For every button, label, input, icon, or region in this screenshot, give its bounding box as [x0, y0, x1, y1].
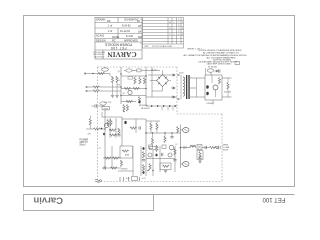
- pre-driver cluster vres b: [126, 105, 128, 112]
- oval label C3: [126, 69, 132, 72]
- bus x133: [132, 146, 134, 176]
- vres lower x150: [149, 164, 151, 171]
- regulator transistor Q10: [213, 85, 218, 90]
- ground sym G1: [111, 96, 114, 98]
- dots lower: [147, 170, 148, 171]
- svg-text:LM340T: LM340T: [207, 103, 215, 105]
- top row box c: [162, 145, 166, 148]
- bridge rectifier D1-D4 diamond: [157, 75, 169, 87]
- elect cap C7 blob: [124, 121, 126, 124]
- secondary tap mid: [190, 87, 197, 89]
- revision table tiny numbers: [144, 19, 183, 48]
- R16 lead: [152, 133, 154, 138]
- bus x110: [109, 118, 111, 138]
- wire after box: [202, 147, 210, 149]
- fuse lead: [210, 72, 212, 75]
- output inductor L1: [190, 146, 196, 147]
- R5 lead: [134, 76, 136, 78]
- wire y95.5: [121, 95, 146, 97]
- input wire stage2: [86, 128, 94, 130]
- cap C8 vertical: [170, 137, 173, 138]
- dark mark: [103, 133, 105, 136]
- wire into C5: [92, 105, 96, 107]
- node dot input: [92, 73, 93, 74]
- resistor R10 horizontal: [126, 100, 133, 102]
- pre-driver cluster vres a: [123, 105, 125, 112]
- R1 lower lead: [112, 82, 114, 95]
- resistor R8 horizontal: [133, 87, 140, 89]
- mid row transistor Q9: [168, 153, 172, 157]
- svg-text:10-12-81: 10-12-81: [120, 30, 131, 33]
- vertical wire x152: [151, 67, 153, 97]
- L1 parallel resistor line: [190, 144, 196, 146]
- svg-text:x: x: [174, 34, 175, 36]
- output jack J2: [216, 147, 218, 149]
- wire y97: [146, 96, 177, 98]
- jack contact bars: [219, 146, 221, 150]
- power transistor Q6 oval: [183, 162, 189, 167]
- wire to bus: [100, 128, 105, 130]
- transformer T1 primary winding: [183, 77, 185, 96]
- node dot stage2: [104, 128, 105, 129]
- R17 lead: [164, 133, 166, 136]
- top row vres b: [156, 145, 158, 152]
- X marks: [198, 145, 201, 148]
- svg-text:Q7: Q7: [175, 144, 178, 146]
- fuse oval label F1: [207, 69, 213, 72]
- secondary tap top: [190, 77, 205, 79]
- resistor R13 horizontal: [110, 129, 117, 131]
- notes text block (tiny smudge text): [183, 50, 247, 66]
- U1 bottom lead: [212, 100, 214, 105]
- top row transistor Q7: [169, 145, 174, 150]
- resistor R3 horizontal: [93, 86, 100, 88]
- wire y168: [102, 167, 121, 169]
- svg-text:x: x: [174, 22, 175, 24]
- zobel ground: [198, 161, 201, 163]
- jack lead: [214, 147, 216, 149]
- wire from R4: [100, 90, 121, 92]
- cap C1 oval label: [102, 68, 109, 71]
- resistor R16 vertical: [151, 138, 153, 145]
- resistor R13b vertical: [110, 119, 112, 126]
- svg-text:C2: C2: [118, 80, 120, 82]
- title block outer box: [95, 18, 142, 60]
- svg-text:REV: REV: [144, 46, 149, 48]
- bias junction blobs: [151, 105, 176, 107]
- svg-text:2 of: 2 of: [108, 30, 112, 33]
- inner wire U1: [211, 75, 213, 83]
- svg-text:BIAS: BIAS: [125, 154, 130, 157]
- shunt top lead: [89, 116, 91, 119]
- bus x160 lower: [159, 146, 161, 172]
- svg-text:1 of: 1 of: [108, 25, 112, 28]
- svg-text:DO NOT SCALE DWG: DO NOT SCALE DWG: [152, 45, 173, 48]
- svg-text:LAST REF DESIG USED: LAST REF DESIG USED: [207, 63, 232, 66]
- wire y70.5: [124, 70, 160, 72]
- wire y170: [118, 170, 133, 172]
- diode arrow c: [171, 96, 175, 98]
- transformer T1 core bar 2: [188, 75, 189, 99]
- column x143 vres: [142, 152, 144, 159]
- bridge left wire: [150, 80, 157, 82]
- long bus x105: [104, 110, 106, 168]
- Q5 base parts: [177, 127, 179, 134]
- filter cap C11 blob: [206, 92, 209, 95]
- resistor R4 horizontal: [93, 90, 100, 92]
- supply out wire top: [222, 77, 232, 79]
- svg-text:POWER MODULE: POWER MODULE: [104, 42, 132, 46]
- feedback wire horizontal: [102, 116, 122, 118]
- Rb lead: [156, 121, 158, 123]
- dark dot near Q3: [101, 128, 103, 130]
- C8 lead: [171, 133, 173, 137]
- bus dots x146: [145, 75, 146, 76]
- left margin tick labels: [140, 19, 142, 45]
- R16 label box: [150, 147, 157, 150]
- box cluster lower: [160, 163, 171, 170]
- small cluster smudge: [128, 77, 133, 80]
- input stub R3: [87, 86, 94, 88]
- transistor Q2: [128, 90, 132, 94]
- vertical bus x121: [120, 67, 122, 104]
- bus x175 lower: [174, 146, 176, 172]
- resistor R20 horizontal: [105, 157, 112, 159]
- small series parts: [184, 146, 186, 149]
- mid row blob: [155, 154, 157, 157]
- column x143 blob 2: [142, 171, 144, 174]
- zobel resistor: [199, 152, 201, 159]
- label box IC1: [102, 107, 110, 110]
- column x143 blob 1: [142, 147, 144, 150]
- bleeder resistor R40: [227, 83, 229, 90]
- svg-text:CALIF 92025: CALIF 92025: [94, 55, 105, 58]
- diode arrow b: [171, 87, 175, 89]
- bus dots: [120, 73, 121, 74]
- supply out wire bottom: [222, 96, 232, 98]
- transistor Q3: [104, 123, 108, 127]
- zobel lead: [199, 160, 201, 161]
- secondary vertical link: [196, 78, 198, 97]
- wire out C5: [96, 105, 105, 107]
- svg-text:0.22: 0.22: [126, 178, 130, 180]
- main wire y133: [146, 132, 181, 134]
- Q10 leads: [215, 90, 217, 97]
- svg-text:R9: R9: [118, 85, 120, 87]
- svg-text:AMP IN: AMP IN: [80, 141, 88, 144]
- block rect right edge: [145, 119, 147, 133]
- svg-text:Carvin: Carvin: [33, 194, 63, 205]
- wire y101: [121, 101, 136, 103]
- callout line to box: [205, 68, 207, 75]
- svg-text:8-24-81: 8-24-81: [122, 25, 131, 28]
- output node dot: [180, 147, 182, 149]
- secondary tap bottom: [190, 96, 205, 98]
- inner resistor U1 right: [218, 78, 220, 85]
- svg-text:Q1: Q1: [118, 71, 121, 73]
- block rect top edge: [122, 118, 146, 120]
- svg-text:50mV: 50mV: [80, 145, 86, 147]
- bus x153 lower: [152, 150, 154, 176]
- svg-text:8-4-81: 8-4-81: [126, 35, 134, 38]
- cap C6 vertical: [117, 135, 120, 136]
- resistor R5 vertical: [134, 78, 136, 85]
- input cap C5 crossing dashed: [95, 104, 96, 107]
- wire y158.5: [146, 158, 175, 160]
- bias drop a: [161, 107, 163, 111]
- svg-text:40V 2A: 40V 2A: [224, 91, 231, 94]
- svg-text:FET 100: FET 100: [110, 46, 126, 50]
- bridge diode tick D3: [158, 83, 160, 85]
- cap C12 horizontal: [104, 166, 105, 169]
- resistor R6b vertical: [143, 78, 145, 85]
- svg-text:d: d: [140, 37, 141, 39]
- column x143 vres 2: [142, 165, 144, 172]
- svg-text:DRAWN: DRAWN: [96, 19, 106, 22]
- bottom tick marks: [120, 177, 140, 181]
- Carvin footer box: [24, 195, 154, 211]
- sub box: [120, 146, 133, 158]
- box inner resistor: [122, 150, 129, 152]
- Ra lead: [150, 121, 152, 123]
- Q5 inner tick: [184, 129, 187, 131]
- resistor R21 horizontal: [113, 157, 120, 159]
- bottom strip line: [24, 194, 295, 196]
- primary vertical link: [180, 75, 182, 99]
- svg-text:APPROVED: APPROVED: [124, 39, 138, 42]
- CARVIN address tiny text: [93, 51, 106, 58]
- svg-text:RS: RS: [107, 20, 111, 23]
- svg-text:POWER: POWER: [80, 139, 89, 141]
- title block tiny row texts: [96, 19, 142, 43]
- wire drop x110: [109, 74, 111, 77]
- bias drop b: [167, 107, 169, 111]
- Rb lower lead: [156, 129, 158, 133]
- Q6 inner tick: [184, 163, 187, 165]
- y133 dots: [152, 132, 153, 133]
- terminal dot R4: [86, 90, 87, 91]
- VAS inner vertical: [135, 119, 137, 133]
- filter cap C10 blob: [206, 85, 209, 88]
- resistor R1 vertical: [111, 76, 113, 83]
- node dots stage2: [109, 129, 110, 130]
- revision table: [143, 18, 184, 49]
- bus x146 lower: [145, 133, 147, 176]
- bridge diode tick D1: [158, 77, 160, 79]
- svg-text:D1-D4: D1-D4: [151, 70, 156, 72]
- input shunt resistor vertical: [89, 119, 91, 126]
- bias drop c: [172, 107, 174, 111]
- pre-driver dot: [123, 111, 124, 112]
- svg-text:2N3055: 2N3055: [121, 169, 128, 171]
- cap C18 vertical: [173, 160, 176, 161]
- oval label C5: [100, 102, 106, 105]
- small cap near fuse: [219, 69, 220, 72]
- svg-text:RC: RC: [112, 39, 116, 42]
- svg-text:115V: 115V: [179, 73, 184, 75]
- resistor R17 vertical: [164, 136, 166, 143]
- resistor R12 vertical: [118, 128, 120, 135]
- Ra lower lead: [150, 129, 152, 133]
- wire y75: [148, 74, 171, 76]
- output cap C9: [205, 146, 206, 149]
- svg-text:FET 100: FET 100: [262, 196, 286, 202]
- input terminal circle: [84, 73, 86, 75]
- Q5 lead: [181, 129, 183, 131]
- input wire top: [85, 73, 110, 75]
- small label rect on wire: [137, 69, 141, 72]
- bus x141: [140, 146, 142, 176]
- resistor R9 vertical: [138, 97, 140, 104]
- zobel box: [197, 151, 203, 160]
- fuse resistor on wire: [98, 72, 105, 74]
- bridge diode tick D2: [165, 77, 167, 79]
- bridge diode tick D4: [165, 83, 167, 85]
- bridge bottom wire: [152, 87, 163, 92]
- output vertical bus: [180, 125, 182, 169]
- vertical bus x146: [145, 67, 147, 106]
- series resistor small: [210, 146, 217, 148]
- terminal dot R3: [86, 86, 87, 87]
- small diode near fuse: [215, 70, 219, 72]
- regulator box U1: [205, 75, 222, 100]
- bus x112: [111, 146, 113, 168]
- svg-text:DESIGN: DESIGN: [96, 39, 106, 42]
- svg-text:MPS9632: MPS9632: [141, 108, 151, 110]
- bleeder lead top: [227, 78, 229, 83]
- resistor R15 horizontal: [130, 127, 137, 129]
- shunt bottom lead: [89, 124, 91, 129]
- svg-text:c: c: [140, 31, 141, 33]
- power transistor Q5 oval: [183, 128, 189, 133]
- bus x122: [121, 117, 123, 146]
- resistor R23 vertical: [120, 160, 122, 167]
- transformer T1 core bar 1: [186, 75, 187, 99]
- resistor R7 horizontal: [124, 87, 131, 89]
- ground under box cluster: [164, 171, 167, 173]
- mid row transistor Q8: [148, 153, 152, 157]
- wire y76: [121, 75, 146, 77]
- Q6 lead: [181, 163, 183, 165]
- resistor R28 horizontal: [163, 165, 170, 167]
- svg-text:x: x: [174, 28, 175, 30]
- resistor R6 vertical: [139, 78, 141, 85]
- wire y158: [103, 157, 121, 159]
- wire from R3: [100, 86, 121, 88]
- input stub R4: [87, 90, 94, 92]
- diode arrow a: [171, 74, 175, 76]
- bridge top wire: [162, 71, 164, 75]
- bias resistor Ra vertical: [150, 123, 152, 130]
- svg-text:0.22: 0.22: [142, 178, 146, 180]
- drawing frame border: [24, 16, 295, 187]
- cap blob C4: [138, 101, 140, 104]
- resistor R2 vertical: [116, 76, 118, 83]
- svg-text:100W: 100W: [223, 150, 228, 152]
- input resistor stage2: [94, 128, 101, 130]
- junction box with X: [197, 145, 202, 150]
- R2 lower lead: [116, 82, 118, 95]
- SPKR label stack: [223, 144, 230, 151]
- wire y88: [121, 88, 146, 90]
- top row box a: [149, 145, 153, 148]
- bus x116: [115, 118, 117, 138]
- resistor R14 horizontal: [110, 134, 117, 136]
- chassis dashed outline: [98, 67, 223, 182]
- output node wire: [181, 147, 191, 149]
- chassis ground corner: [95, 179, 101, 183]
- mid row cap: [162, 153, 163, 156]
- POWER AMP IN label: [80, 139, 89, 146]
- bias resistor Rb vertical: [156, 123, 158, 130]
- primary terminal circles: [178, 74, 180, 76]
- bias wire y121: [146, 120, 160, 122]
- R6 lead: [139, 76, 141, 78]
- small label box top right: [235, 62, 240, 65]
- svg-text:CARVIN: CARVIN: [107, 50, 137, 59]
- column x143 cap: [142, 160, 145, 161]
- svg-text:b: b: [140, 25, 141, 27]
- zobel cap: [198, 157, 201, 158]
- node dot mid: [145, 132, 147, 134]
- cap C7b: [139, 126, 140, 129]
- bias wire y106: [146, 105, 177, 107]
- svg-text:Q2: Q2: [123, 93, 126, 95]
- bleeder lead bottom: [227, 88, 229, 97]
- wire y88 right: [170, 80, 172, 82]
- resistor R29 vertical: [174, 149, 176, 156]
- feedback wire vertical: [101, 112, 103, 117]
- svg-text:F1 4A SB: F1 4A SB: [208, 66, 217, 69]
- ground sym G2: [115, 96, 118, 98]
- resistor R13a vertical: [107, 119, 109, 126]
- resistor R22 horizontal: [111, 167, 118, 169]
- svg-text:SCALE: SCALE: [96, 35, 105, 38]
- bottom small box: [132, 177, 138, 181]
- svg-text:e: e: [140, 43, 141, 45]
